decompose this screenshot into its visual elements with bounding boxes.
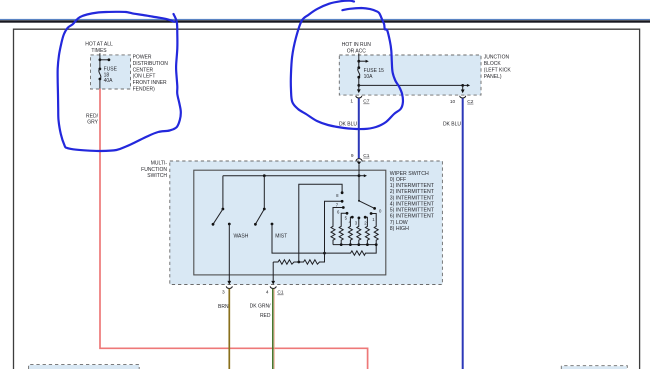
svg-text:CENTER: CENTER [133, 67, 154, 73]
node T junction [357, 84, 360, 87]
pin 10 arrow [462, 85, 464, 89]
svg-text:(ON LEFT: (ON LEFT [133, 74, 156, 80]
switch wash contact [228, 223, 231, 226]
bottom-right box fragment [562, 366, 627, 369]
switch wash pivot [222, 208, 225, 211]
wire RED/GRY [100, 89, 368, 369]
svg-text:5) INTERMITTENT: 5) INTERMITTENT [390, 208, 435, 214]
svg-text:9: 9 [351, 153, 354, 159]
wire supply rail [223, 175, 359, 177]
resistor output left [273, 260, 299, 264]
contact 6 [342, 206, 345, 209]
svg-text:4) INTERMITTENT: 4) INTERMITTENT [390, 202, 435, 208]
svg-text:0) OFF: 0) OFF [390, 177, 406, 183]
svg-text:40A: 40A [104, 78, 114, 84]
svg-text:C2: C2 [467, 99, 473, 105]
svg-text:FRONT INNER: FRONT INNER [133, 80, 167, 86]
wire to fuse 15 [358, 61, 360, 67]
wire contact 6 drop [333, 208, 343, 226]
resistor R2 [339, 226, 343, 245]
svg-text:RED/: RED/ [86, 113, 99, 119]
contact 2 [364, 216, 367, 219]
wire DK BLU pin1 to C1 [358, 98, 360, 158]
wire mist contact to junction [272, 224, 325, 253]
wire contact 2 drop [365, 217, 367, 225]
fuse F15 element [358, 68, 360, 78]
pin 4 connector cup [270, 286, 276, 288]
wire feed into junction block [358, 53, 360, 61]
resistor R6 [374, 226, 378, 245]
wire wash contact to pin 3 [228, 224, 230, 281]
node output junction [323, 252, 326, 255]
wire contact 4 drop [350, 217, 352, 225]
fuse F18 terminal [99, 68, 102, 71]
fuse F18 terminal [99, 78, 102, 81]
resistor delay [325, 245, 377, 256]
svg-text:WIPER SWITCH: WIPER SWITCH [390, 171, 429, 177]
multi-function switch box [170, 161, 443, 285]
svg-text:DISTRIBUTION: DISTRIBUTION [133, 61, 169, 67]
pin 4 arrow [271, 281, 275, 285]
svg-text:FENDER): FENDER) [133, 86, 156, 92]
svg-text:6) INTERMITTENT: 6) INTERMITTENT [390, 214, 435, 220]
contact 3 [358, 217, 361, 220]
node rail junction [358, 174, 361, 177]
svg-text:8) HIGH: 8) HIGH [390, 226, 409, 232]
svg-text:4: 4 [266, 290, 269, 296]
wire DK BLU pin10 down [462, 98, 464, 369]
wire fuse to pin 1 [358, 77, 360, 85]
svg-text:MULTI-: MULTI- [151, 161, 168, 167]
power distribution center box [91, 55, 131, 89]
pin 1 arrow [358, 85, 360, 89]
svg-text:BLOCK: BLOCK [484, 61, 502, 67]
svg-text:FUNCTION: FUNCTION [141, 167, 167, 173]
svg-text:DK BLU: DK BLU [443, 122, 461, 128]
connector C1 pin 9 arrow [357, 162, 361, 165]
wire mist feed [263, 176, 265, 209]
svg-text:PANEL): PANEL) [484, 74, 502, 80]
wiper switch arm [359, 201, 375, 209]
resistor R5 [365, 226, 369, 245]
node pin10 junction [461, 84, 464, 87]
wire DK GRN/RED [272, 289, 274, 369]
pin 10 connector cup [460, 96, 466, 98]
switch inner housing box [194, 170, 386, 275]
wire stub arrow [100, 59, 109, 61]
switch mist pivot [263, 208, 266, 211]
pin 3 connector cup [226, 286, 232, 288]
bottom-left box fragment [29, 365, 139, 369]
node mid-tap [297, 261, 300, 264]
svg-text:RED: RED [260, 313, 271, 319]
annotation circle left [58, 12, 181, 151]
wire contact 7 to junction [325, 201, 343, 253]
pin 1 connector cup [356, 96, 362, 98]
svg-text:JUNCTION: JUNCTION [484, 55, 510, 61]
svg-text:1) INTERMITTENT: 1) INTERMITTENT [390, 183, 435, 189]
wire output line to pin 4 [272, 262, 274, 281]
svg-text:10: 10 [450, 99, 456, 105]
node B+ junction [99, 58, 102, 61]
svg-text:7) LOW: 7) LOW [390, 220, 408, 226]
svg-text:HOT IN RUN: HOT IN RUN [342, 42, 371, 48]
contact 8 [341, 191, 344, 194]
switch mist contact [271, 223, 274, 226]
resistor R3 [348, 226, 352, 245]
node run/acc junction [357, 60, 360, 63]
wiper switch rotor feed [358, 176, 360, 201]
contact 7 [341, 200, 344, 203]
junction block box [339, 55, 481, 95]
wire stub arrow [359, 175, 364, 177]
svg-text:MIST: MIST [275, 233, 287, 239]
contact 1 [370, 212, 373, 215]
svg-text:3) INTERMITTENT: 3) INTERMITTENT [390, 195, 435, 201]
switch mist arm [255, 209, 264, 224]
svg-text:C1: C1 [363, 153, 369, 159]
wire stub arrow [463, 84, 468, 86]
resistor R4 [357, 226, 361, 245]
pin 3 arrow [227, 281, 231, 285]
svg-text:(LEFT KICK: (LEFT KICK [484, 68, 512, 74]
resistor R1 [331, 226, 335, 245]
wire contact 3 drop [358, 218, 360, 226]
wire BRN [228, 289, 230, 369]
svg-text:TIMES: TIMES [91, 48, 107, 54]
wire to fuse [99, 60, 101, 69]
wire contact 5 drop [341, 213, 347, 225]
svg-text:2) INTERMITTENT: 2) INTERMITTENT [390, 189, 435, 195]
node mist tap [263, 174, 266, 177]
wire contact 1 drop [371, 214, 376, 226]
wire C1 into switch [358, 165, 360, 176]
svg-text:SWITCH: SWITCH [147, 173, 167, 179]
fuse F15 terminal [357, 66, 360, 69]
svg-text:3: 3 [222, 290, 225, 296]
svg-text:C1: C1 [277, 290, 283, 296]
contact 5 [346, 212, 349, 215]
svg-text:OR ACC: OR ACC [347, 48, 367, 54]
svg-text:DK GRN/: DK GRN/ [250, 304, 271, 310]
wire bus to pin 10 [359, 84, 463, 86]
top toolbar dark bar [0, 20, 650, 22]
contact 0 [373, 207, 376, 210]
svg-text:C7: C7 [363, 99, 369, 105]
wire wash feed [222, 176, 224, 209]
fuse F15 terminal [357, 76, 360, 79]
svg-text:GRY: GRY [87, 120, 98, 126]
connector C1 pin 9 cup [356, 159, 362, 162]
top toolbar blue line [0, 19, 650, 20]
wire contact 8 to resistor mid-tap [299, 184, 342, 262]
wire fuse to box edge [99, 79, 101, 89]
wire resistor rail [333, 244, 376, 246]
svg-text:POWER: POWER [133, 55, 152, 61]
contact 4 [351, 216, 354, 219]
switch wash arm [213, 209, 223, 224]
svg-text:WASH: WASH [234, 233, 249, 239]
resistor output right [299, 253, 325, 264]
svg-text:HOT AT ALL: HOT AT ALL [85, 41, 113, 47]
wire stub arrow [359, 60, 366, 62]
wire feed into PDC [99, 53, 101, 60]
svg-text:10A: 10A [364, 74, 374, 80]
svg-text:FUSE 15: FUSE 15 [364, 68, 385, 74]
fuse F18 element [99, 69, 101, 79]
svg-text:1: 1 [350, 99, 353, 105]
annotation circle right [291, 1, 403, 129]
svg-text:BRN: BRN [218, 304, 229, 310]
